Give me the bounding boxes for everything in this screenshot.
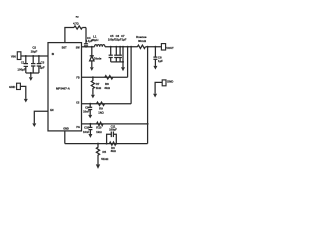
connector VIN <box>11 52 21 60</box>
node input cap C2 <box>32 55 34 57</box>
capacitor C1 100uF <box>17 56 28 73</box>
svg-text:R10: R10 <box>96 126 102 130</box>
connector VOUT <box>161 44 174 50</box>
svg-text:BST: BST <box>62 47 67 50</box>
ground C9 <box>88 115 92 119</box>
capacitor C3 1uF <box>37 56 45 73</box>
capacitor C4 0.1uF BST <box>84 28 93 47</box>
wire output gnd drop <box>122 47 124 68</box>
node line B cap C9 <box>89 103 91 105</box>
node input cap C3 <box>38 55 40 57</box>
resistor R10 1k on line C <box>96 122 103 134</box>
ground diode <box>90 67 94 71</box>
ground right connector <box>153 94 157 98</box>
node V3 <box>147 46 149 48</box>
svg-text:10nF: 10nF <box>83 109 90 113</box>
connector GND right <box>162 79 173 86</box>
wire GND connector <box>20 86 25 99</box>
svg-text:Diode: Diode <box>94 56 102 60</box>
resistor R6 on line2 <box>109 142 116 153</box>
node input cap C1 <box>25 55 27 57</box>
svg-text:51kΩ: 51kΩ <box>101 157 109 161</box>
ground left connector <box>24 99 28 103</box>
wire GND right <box>155 82 162 93</box>
wire rail to VOUT <box>145 46 161 48</box>
node BST cap <box>85 46 87 48</box>
svg-text:1kΩ: 1kΩ <box>98 110 104 114</box>
resistor R5 51k vertical <box>96 144 109 165</box>
svg-text:VIN: VIN <box>11 54 16 58</box>
svg-text:C7: C7 <box>121 34 125 38</box>
svg-text:CS: CS <box>76 101 80 104</box>
wire output caps bottom rail <box>111 61 123 63</box>
capacitor C6 22uF <box>114 47 118 62</box>
capacitor C9 10nF <box>83 104 92 115</box>
svg-text:PG: PG <box>76 126 80 129</box>
svg-text:GND: GND <box>167 79 173 83</box>
svg-text:1µF: 1µF <box>122 38 127 42</box>
svg-text:1kΩ: 1kΩ <box>96 86 102 90</box>
ground R5 <box>96 164 100 169</box>
node line C V3 <box>147 123 149 125</box>
ground C10 <box>88 134 92 138</box>
resistor R8 3k on line A <box>104 76 112 90</box>
svg-text:SW: SW <box>76 47 81 50</box>
node output cap C7 <box>119 46 121 48</box>
resistor R2 4.7ohm BST loop <box>65 17 86 43</box>
connector GND left <box>9 83 20 89</box>
svg-text:C5: C5 <box>110 34 114 38</box>
svg-text:30mΩ: 30mΩ <box>138 39 147 43</box>
resistor R9 1k on line B <box>97 102 105 114</box>
svg-text:FB: FB <box>76 76 79 79</box>
node bottom rail <box>30 72 32 74</box>
node C8 <box>154 46 156 48</box>
svg-text:VOUT: VOUT <box>166 46 174 50</box>
svg-text:GND: GND <box>63 128 69 131</box>
capacitor C2 10uF <box>31 46 38 73</box>
wire line B CS <box>82 103 132 105</box>
ground C8 <box>153 66 157 70</box>
wire GND pin down <box>64 131 66 144</box>
node line2 R5 <box>97 143 99 145</box>
capacitor C11 100pF parallel loop <box>106 125 118 145</box>
capacitor C8 1uF <box>153 47 163 66</box>
capacitor C10 10nF <box>83 124 92 134</box>
wire V1 vertical <box>130 47 132 104</box>
wire V2 vertical <box>127 47 129 78</box>
ground R7 <box>91 95 95 99</box>
wire SW rail <box>82 46 95 48</box>
svg-text:3kΩ: 3kΩ <box>111 149 117 153</box>
resistor R7 1k to ground <box>91 77 102 95</box>
wire line2 bottom <box>65 143 148 145</box>
svg-text:R2: R2 <box>76 17 80 19</box>
labels output caps <box>108 34 127 41</box>
node output gnd wire <box>122 46 124 48</box>
wire EN to ground <box>34 111 48 123</box>
svg-text:100µF: 100µF <box>17 68 25 72</box>
svg-text:MP3467-A: MP3467-A <box>56 86 71 90</box>
svg-text:C10: C10 <box>84 126 89 130</box>
svg-text:10µF: 10µF <box>31 49 38 53</box>
diode D1 <box>90 47 102 67</box>
node line C cap C10 <box>89 123 91 125</box>
node V2 rail <box>127 46 129 48</box>
svg-text:C9: C9 <box>85 106 89 110</box>
ground input caps <box>29 73 33 81</box>
svg-text:10nF: 10nF <box>83 130 90 134</box>
wire input cap bottom rail <box>26 72 39 74</box>
capacitor C7 1uF <box>118 47 122 62</box>
svg-text:GND: GND <box>9 85 15 89</box>
wire VIN to IN pin <box>21 55 48 57</box>
node output cap C5 <box>110 46 112 48</box>
wire line A FB <box>82 76 128 78</box>
svg-text:C1: C1 <box>21 60 25 64</box>
wire SW rail after inductor <box>105 46 138 48</box>
svg-text:3kΩ: 3kΩ <box>104 86 110 90</box>
svg-text:4.7Ω: 4.7Ω <box>73 22 78 25</box>
wire V3 vertical <box>147 47 149 144</box>
node line A R7 <box>92 76 94 78</box>
svg-text:C6: C6 <box>116 34 120 38</box>
capacitor C5 100uF <box>109 47 113 62</box>
svg-text:1µF: 1µF <box>158 59 163 63</box>
svg-text:33µH: 33µH <box>91 38 98 42</box>
node diode <box>91 46 93 48</box>
inductor L1 33uH <box>91 35 105 47</box>
node output cap C6 <box>115 46 117 48</box>
resistor Rsense 30mohm <box>136 35 147 49</box>
node V1 rail <box>130 46 132 48</box>
svg-text:C3: C3 <box>41 60 45 64</box>
op-amp U1 MP9487A IC body <box>48 43 82 131</box>
ground EN <box>32 123 36 127</box>
svg-text:100pF: 100pF <box>109 127 117 131</box>
svg-text:EN: EN <box>50 109 54 112</box>
ground output caps <box>121 67 125 71</box>
svg-text:1kΩ: 1kΩ <box>96 130 102 134</box>
svg-text:IN: IN <box>52 53 55 56</box>
svg-text:1µF: 1µF <box>40 66 45 70</box>
wire line C SS <box>82 123 148 125</box>
svg-text:R5: R5 <box>102 150 106 154</box>
